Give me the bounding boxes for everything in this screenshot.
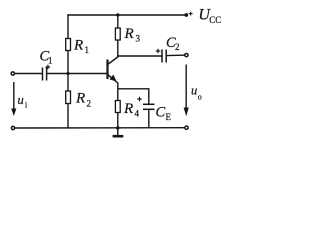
arrow ui (13, 82, 15, 110)
resistor R4 (115, 101, 120, 113)
resistor R3 (115, 28, 120, 40)
wire bottom rail (15, 127, 185, 129)
label ui (18, 93, 29, 110)
label plus C2 (156, 49, 161, 54)
wire C1 to base (47, 73, 107, 75)
ground bar (113, 135, 124, 138)
wire emitter branch to CE (118, 89, 149, 105)
svg-text:u: u (18, 93, 24, 107)
wire left bias vertical (67, 14, 69, 38)
resistor R1 (66, 39, 71, 51)
label UCC (198, 7, 221, 26)
svg-text:4: 4 (135, 109, 140, 119)
resistor R2 (66, 91, 71, 104)
svg-text:R: R (73, 38, 83, 54)
transistor Q1 collector lead (108, 56, 118, 65)
transistor Q1 emitter arrowhead (110, 75, 117, 82)
wire R1 to junction (67, 51, 69, 92)
wire R3 to collector node (117, 40, 119, 57)
wire CE to bottom rail (148, 109, 150, 128)
transistor Q1 base bar (106, 60, 108, 80)
svg-text:2: 2 (87, 99, 92, 109)
transistor Q1 emitter lead (108, 74, 118, 83)
svg-text:i: i (25, 101, 28, 110)
capacitor C1 plates (42, 68, 44, 81)
svg-text:u: u (191, 84, 197, 98)
svg-text:o: o (198, 93, 202, 102)
node top rail end dot (184, 13, 188, 17)
wire R3 top (117, 15, 119, 28)
svg-text:1: 1 (85, 45, 90, 55)
wire R4 to bottom rail (117, 113, 119, 129)
svg-text:R: R (123, 101, 133, 117)
terminal output circle (185, 53, 188, 56)
arrow uo (185, 65, 187, 110)
wire emitter vertical to R4 (117, 83, 119, 101)
label plus C1 (46, 65, 51, 70)
svg-text:1: 1 (48, 56, 53, 66)
terminal bottom left circle (11, 126, 14, 129)
terminal bottom right circle (185, 126, 188, 129)
node junction R3 top rail (116, 13, 119, 16)
svg-text:R: R (75, 91, 85, 107)
wire collector node to C2 (117, 55, 162, 57)
label plus CE (137, 97, 142, 102)
label R3 (124, 26, 141, 44)
ground stub (117, 128, 119, 135)
terminal input circle (11, 72, 14, 75)
wire R2 to bottom rail (67, 104, 69, 129)
node junction R4 ground (116, 126, 119, 129)
svg-text:2: 2 (175, 42, 180, 52)
svg-text:3: 3 (136, 34, 141, 44)
wire C2 to output terminal (166, 54, 184, 56)
svg-text:CC: CC (209, 15, 221, 25)
label uo (191, 84, 202, 102)
node junction base wire bias (66, 72, 69, 75)
label C2 (166, 35, 180, 52)
label R4 (123, 101, 140, 119)
svg-text:R: R (124, 26, 134, 42)
label CE (156, 105, 172, 123)
wire top supply rail (67, 14, 186, 16)
label R1 (73, 38, 89, 56)
label R2 (75, 91, 91, 109)
capacitor CE plates (143, 103, 155, 105)
capacitor C2 plates (161, 50, 163, 63)
label C1 (40, 49, 53, 66)
label plus UCC (189, 12, 193, 16)
svg-text:C: C (156, 105, 166, 121)
svg-text:E: E (166, 112, 172, 122)
wire input to C1 (15, 73, 43, 75)
